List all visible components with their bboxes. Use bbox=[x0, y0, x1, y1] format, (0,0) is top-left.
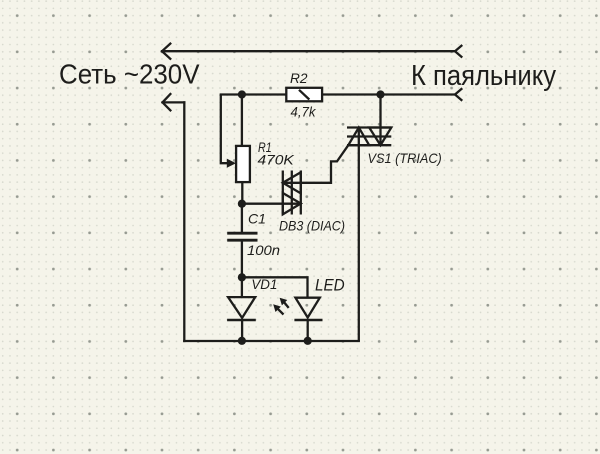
svg-text:К паяльнику: К паяльнику bbox=[411, 60, 556, 92]
wire: main top wire left of R2 bbox=[221, 93, 286, 95]
junction dot (triac MT1 / main wire) bbox=[376, 90, 384, 98]
svg-text:4,7k: 4,7k bbox=[291, 104, 317, 120]
wire: main top wire right of R2 bbox=[322, 93, 455, 95]
terminal chevron right (main wire) bbox=[455, 89, 461, 100]
LED light arrows bbox=[273, 298, 289, 315]
wire: diac output to triac gate bbox=[283, 145, 349, 183]
LED bbox=[294, 298, 322, 341]
svg-text:VD1: VD1 bbox=[251, 276, 277, 292]
svg-text:C1: C1 bbox=[248, 210, 266, 226]
svg-text:VS1 (TRIAC): VS1 (TRIAC) bbox=[368, 150, 442, 166]
svg-text:100n: 100n bbox=[247, 242, 280, 258]
terminal arrow left (mains) on top rail bbox=[162, 44, 170, 59]
junction dot (LED to bottom rail) bbox=[304, 337, 312, 345]
triac VS1 bbox=[347, 95, 391, 342]
potentiometer R1 bbox=[221, 95, 250, 204]
wire: LED branch top bbox=[242, 277, 308, 297]
junction dot (R1 top / mains wire) bbox=[238, 90, 246, 98]
junction dot (VD1 to bottom rail) bbox=[238, 337, 246, 345]
wire: lower left terminal to left rail corner bbox=[163, 101, 185, 103]
capacitor C1 bbox=[227, 204, 257, 278]
junction dot (R1 bottom / C1 / diac node) bbox=[238, 200, 246, 208]
svg-text:DB3 (DIAC): DB3 (DIAC) bbox=[279, 218, 345, 234]
terminal chevron right (top rail) bbox=[455, 46, 461, 57]
wire: left rail vertical bbox=[183, 102, 185, 341]
diode VD1 bbox=[227, 277, 256, 341]
wire: top rail to soldering iron bbox=[162, 50, 455, 52]
svg-text:LED: LED bbox=[315, 275, 345, 294]
resistor R2 bbox=[286, 88, 322, 102]
junction dot (C1 bottom / VD1 / LED node) bbox=[238, 273, 246, 281]
wire: bottom rail bbox=[184, 340, 358, 342]
terminal arrow lower left (mains) bbox=[163, 94, 171, 110]
diac DB3 bbox=[283, 171, 301, 215]
svg-text:Сеть ~230V: Сеть ~230V bbox=[59, 59, 200, 90]
wire: node to diac input bbox=[242, 203, 301, 205]
svg-text:R2: R2 bbox=[290, 70, 308, 86]
svg-text:470K: 470K bbox=[258, 152, 295, 168]
